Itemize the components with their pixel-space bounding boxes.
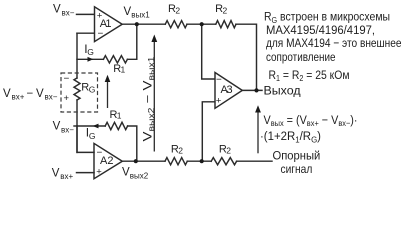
svg-text:V: V — [124, 6, 132, 18]
wire: A1 inverting input left — [77, 32, 94, 34]
wire: A3 non-inverting input from reference row — [202, 102, 215, 162]
resistor R1 (top) — [103, 56, 127, 63]
wire: Vвх+ to A2 + input — [77, 172, 95, 174]
svg-text:Опорный: Опорный — [273, 149, 321, 163]
resistor R1 (bottom) — [105, 122, 127, 129]
svg-text:V: V — [122, 167, 130, 179]
svg-text:Vвых = (Vвх+ − Vвх−)·: Vвых = (Vвх+ − Vвх−)· — [264, 113, 358, 128]
wire: between top R2s — [187, 23, 216, 25]
wire: reference signal row to label — [237, 160, 272, 162]
svg-text:G: G — [89, 85, 96, 95]
resistor R2 (bottom-right) — [211, 158, 236, 165]
svg-text:1: 1 — [121, 65, 126, 75]
wire: IG top row — [77, 58, 103, 60]
wire: top feedback corner down to A3 output — [236, 24, 257, 90]
svg-text:2: 2 — [226, 146, 231, 156]
svg-text:A3: A3 — [221, 84, 233, 96]
svg-text:A2: A2 — [100, 155, 113, 167]
wire: R1 bottom to A2 output junction — [128, 126, 137, 161]
svg-text:V: V — [52, 168, 60, 180]
wire: IG bottom row — [77, 125, 105, 127]
svg-text:вх−: вх− — [45, 93, 58, 102]
svg-text:+: + — [96, 167, 102, 178]
svg-text:сигнал: сигнал — [281, 162, 313, 176]
wire: A2 inverting loop — [77, 126, 94, 152]
svg-text:V: V — [53, 4, 61, 16]
junction: A1 output node — [135, 22, 139, 26]
svg-text:+: + — [216, 96, 222, 107]
wire: A3 inverting input from top R2 junction — [202, 24, 215, 79]
rotated label Vвых2 - Vвых1 — [143, 56, 157, 142]
svg-text:A1: A1 — [100, 18, 112, 30]
svg-text:−: − — [64, 74, 70, 85]
svg-text:вых2: вых2 — [130, 171, 149, 180]
wire: A2 output row — [122, 160, 165, 162]
annotation arrow Vвых2-Vвых1 (tall, up) — [151, 35, 157, 152]
svg-text:·(1+2R1/RG): ·(1+2R1/RG) — [260, 129, 321, 144]
svg-text:2: 2 — [223, 5, 228, 15]
wire: Vвх- to A1 + input — [77, 13, 95, 15]
svg-text:Выход: Выход — [264, 83, 302, 97]
svg-text:−: − — [27, 88, 34, 100]
junction: bottom R2 reference node — [200, 159, 204, 163]
svg-text:вх+: вх+ — [60, 172, 73, 181]
svg-text:R1 = R2 = 25 кОм: R1 = R2 = 25 кОм — [269, 68, 350, 83]
svg-text:для MAX4194 − это внешнее: для MAX4194 − это внешнее — [266, 36, 402, 50]
op-amp A2 — [94, 143, 122, 178]
svg-text:вх+: вх+ — [12, 93, 25, 102]
resistor RG — [74, 78, 80, 100]
svg-text:+: + — [64, 93, 70, 104]
resistor R2 (bottom-left) — [165, 158, 187, 165]
svg-text:2: 2 — [178, 146, 183, 156]
wire: R1 top to A1 output junction — [127, 24, 136, 59]
wire: A1 output row — [122, 23, 165, 25]
svg-text:MAX4195/4196/4197,: MAX4195/4196/4197, — [266, 23, 375, 37]
svg-text:G: G — [89, 131, 96, 141]
IG current arrow (top, pointing right) — [88, 57, 94, 62]
wire: between bottom R2s — [187, 160, 211, 162]
junction: A2 output node — [134, 159, 138, 163]
resistor R2 (top-right) — [216, 21, 236, 28]
svg-text:2: 2 — [175, 5, 180, 15]
svg-text:1: 1 — [117, 110, 122, 120]
annotation arrow at Vвых formula (up) — [255, 105, 261, 153]
svg-text:V: V — [53, 121, 61, 133]
svg-text:вых1: вых1 — [131, 11, 150, 20]
wire: A3 output to Выход — [242, 89, 262, 91]
wire: Vвх- (bottom) node to IG row — [74, 125, 77, 127]
IG current arrow (bottom, pointing left) — [93, 124, 99, 129]
dashed box around RG — [61, 73, 98, 112]
svg-text:Vвых2 − Vвых1: Vвых2 − Vвых1 — [143, 56, 157, 142]
svg-text:V: V — [3, 88, 11, 100]
resistor R2 (top-left) — [165, 21, 187, 28]
svg-text:сопротивление: сопротивление — [266, 50, 336, 64]
junction: top R2 divider node — [200, 22, 204, 26]
svg-text:вх−: вх− — [61, 125, 74, 134]
junction: A3 output node — [254, 88, 258, 92]
op-amp A3 — [215, 73, 242, 109]
svg-text:вх−: вх− — [62, 9, 75, 18]
annotation arrow beside RG (up) — [105, 75, 111, 108]
wire: left vertical node (A1- / RG / A2-) — [76, 33, 78, 78]
svg-text:G: G — [87, 47, 94, 57]
svg-text:V: V — [36, 88, 44, 100]
svg-text:−: − — [98, 29, 104, 40]
op-amp A1 — [95, 7, 123, 42]
